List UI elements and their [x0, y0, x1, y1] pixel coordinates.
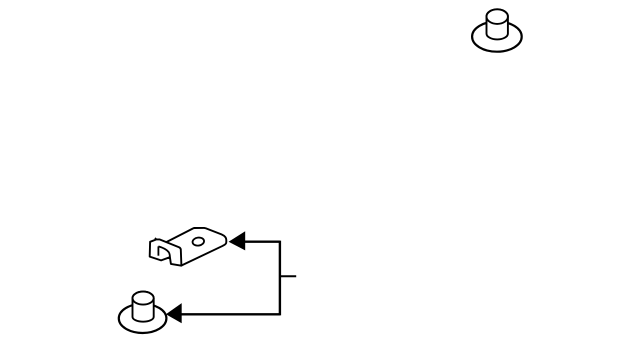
grommet G1 (top right) base flange ellipse	[472, 21, 522, 51]
bracket B1 clip tongue curve	[158, 246, 170, 257]
grommet G2 stem top ellipse	[133, 292, 154, 305]
arrow A1 pointing to bracket	[229, 231, 246, 250]
bracket B1 seam flap	[155, 238, 157, 239]
grommet G2 stem cylinder body	[133, 292, 154, 322]
leader line to bottom grommet arrow	[181, 313, 280, 315]
grommet G2 (bottom left) base flange ellipse	[119, 304, 167, 333]
bracket B1 clip mouth inner edge	[157, 246, 159, 255]
arrow A2 pointing to bottom grommet	[166, 303, 182, 323]
bracket B1 folded clip flange	[150, 239, 182, 265]
bracket B1 hole	[192, 237, 205, 247]
bracket B1 top plate	[159, 228, 226, 266]
grommet G1 stem top ellipse	[487, 9, 508, 24]
leader tick (callout stub)	[280, 275, 296, 277]
leader line from bracket arrow to junction	[245, 241, 280, 243]
grommet G1 stem cylinder body	[487, 9, 508, 39]
leader vertical line	[279, 241, 281, 316]
